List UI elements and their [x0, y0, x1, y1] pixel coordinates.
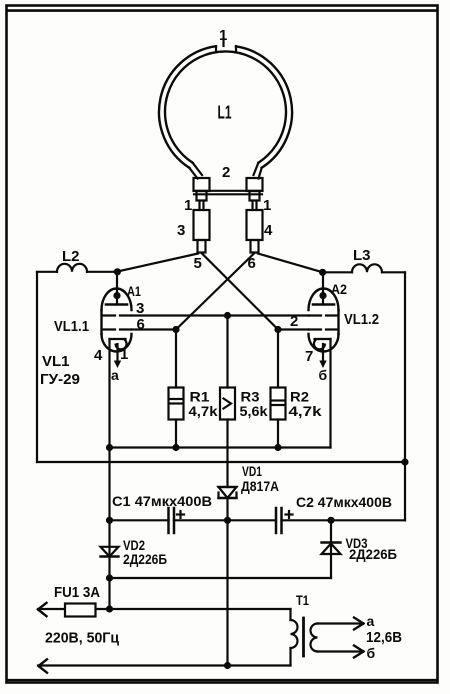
capacitor C2 [276, 494, 392, 533]
node L2/anode junction [114, 268, 121, 275]
wire diagonal A: terminal 5 to right grid node [202, 253, 279, 330]
svg-text:FU1 3A: FU1 3A [54, 584, 100, 601]
svg-text:1: 1 [219, 27, 227, 44]
svg-text:а: а [111, 367, 119, 383]
wire mains bottom line [38, 659, 291, 672]
svg-text:2Д226Б: 2Д226Б [349, 546, 397, 562]
svg-text:2: 2 [222, 164, 230, 181]
label VL1 GU-29 [40, 353, 80, 388]
svg-text:T1: T1 [296, 592, 309, 608]
svg-text:L1: L1 [218, 103, 232, 123]
svg-text:7: 7 [305, 348, 313, 365]
wire anode lead A1 [116, 272, 118, 295]
wire L1 left lead [189, 163, 202, 179]
connector block 3 (left insulator stack) [177, 178, 210, 253]
svg-text:б: б [319, 367, 328, 383]
tube VL1.2 heater and cathode [305, 339, 331, 383]
wire centre tap down [226, 520, 228, 665]
svg-text:Д817А: Д817А [241, 478, 279, 494]
svg-text:VL1: VL1 [42, 353, 70, 370]
terminal 2 link bar [194, 164, 262, 194]
svg-text:5: 5 [194, 255, 202, 272]
wire anode lead A2 [322, 272, 324, 295]
wire VD2 node to fuse line [108, 578, 110, 609]
svg-text:1: 1 [120, 346, 128, 363]
svg-text:4,7k: 4,7k [189, 403, 218, 419]
node filter left [106, 517, 113, 524]
svg-text:220В, 50Гц: 220В, 50Гц [45, 630, 120, 647]
svg-text:1: 1 [184, 197, 192, 214]
wire grid 6 to node [131, 328, 176, 330]
node centre tap bottom [224, 662, 231, 669]
svg-text:2: 2 [290, 313, 298, 330]
node bus pin4 [106, 444, 113, 451]
node bus R2 [274, 444, 281, 451]
terminal 1 tap of L1 [216, 27, 236, 52]
node fuse line junction [106, 605, 113, 612]
wire pin4 lead down [108, 339, 110, 520]
svg-text:C2 47мкх400В: C2 47мкх400В [296, 494, 392, 510]
node left grid junction [172, 326, 179, 333]
wire pin7 lead down [329, 339, 331, 448]
connector block 4 (right insulator stack) [247, 178, 274, 253]
diode VD3 [322, 520, 398, 578]
wire doubler return line [110, 577, 332, 579]
resistor R2 [271, 330, 322, 448]
svg-text:1: 1 [263, 197, 271, 214]
svg-text:12,6В: 12,6В [366, 629, 402, 646]
tube VL1.1 heater and cathode [94, 339, 128, 383]
diode VD2 [101, 520, 168, 578]
resistor R1 [169, 330, 218, 448]
wire terminal 5 to L2 node [117, 254, 198, 272]
wire diagonal B: terminal 6 to left grid node [176, 253, 255, 330]
wire left rail down [36, 272, 38, 462]
svg-text:C1 47мкх400В: C1 47мкх400В [112, 493, 212, 509]
svg-text:а: а [367, 613, 375, 629]
node filter right [327, 517, 334, 524]
svg-text:VL1.1: VL1.1 [54, 318, 89, 335]
tube VL1.1 anode plate [106, 296, 127, 305]
wire L1 right lead [254, 163, 262, 179]
svg-text:3: 3 [177, 222, 185, 239]
wire B+ rail [37, 461, 405, 463]
transformer T1 [291, 592, 403, 666]
tube VL1.1 envelope [54, 289, 132, 352]
svg-text:2Д226Б: 2Д226Б [123, 551, 167, 567]
fuse FU1 [38, 584, 291, 617]
svg-text:4: 4 [264, 222, 273, 239]
wire right rail down [404, 272, 406, 520]
tube VL1.2 envelope [309, 289, 380, 352]
wire grid line pin3 to right tube pin2 [131, 314, 309, 316]
capacitor C1 [112, 493, 212, 533]
node L3/anode junction [319, 269, 326, 276]
resistor R3 [220, 316, 268, 488]
wire filter line [110, 519, 406, 521]
inductor L2 [37, 248, 117, 272]
node anode cap A2 [319, 281, 347, 299]
svg-text:ГУ-29: ГУ-29 [40, 371, 80, 388]
tube VL1.2 anode plate [313, 296, 334, 305]
svg-text:L2: L2 [62, 248, 80, 265]
node grid line centre tap [224, 312, 231, 319]
svg-text:4,7k: 4,7k [289, 403, 322, 419]
wire cathode bus [110, 446, 331, 448]
inductor L3 [323, 247, 405, 272]
node VD2 bottom junction [106, 574, 113, 581]
node anode cap A1 [113, 283, 141, 299]
node filter centre [224, 517, 231, 524]
wire terminal 6 to L3 node [258, 254, 323, 273]
wire right grid to node [278, 328, 309, 330]
tube VL1.1 grid pin 3 (dashed) [103, 300, 144, 317]
tube VL1.2 lower grid (dashed) [309, 328, 337, 330]
inductor L1 loop antenna [159, 46, 292, 168]
zener VD1 [219, 463, 280, 520]
svg-text:б: б [367, 645, 376, 661]
tube VL1.1 grid pin 6 (dashed) [103, 316, 145, 333]
svg-text:VD1: VD1 [242, 463, 262, 479]
node B+ right junction [401, 458, 408, 465]
svg-text:5,6k: 5,6k [240, 403, 268, 419]
tube VL1.2 grid pin 2 (dashed) [290, 313, 337, 330]
svg-text:L3: L3 [353, 247, 371, 264]
svg-text:4: 4 [94, 347, 103, 364]
node right grid junction [274, 326, 281, 333]
svg-text:VL1.2: VL1.2 [344, 311, 379, 328]
node bus R1 [172, 444, 179, 451]
